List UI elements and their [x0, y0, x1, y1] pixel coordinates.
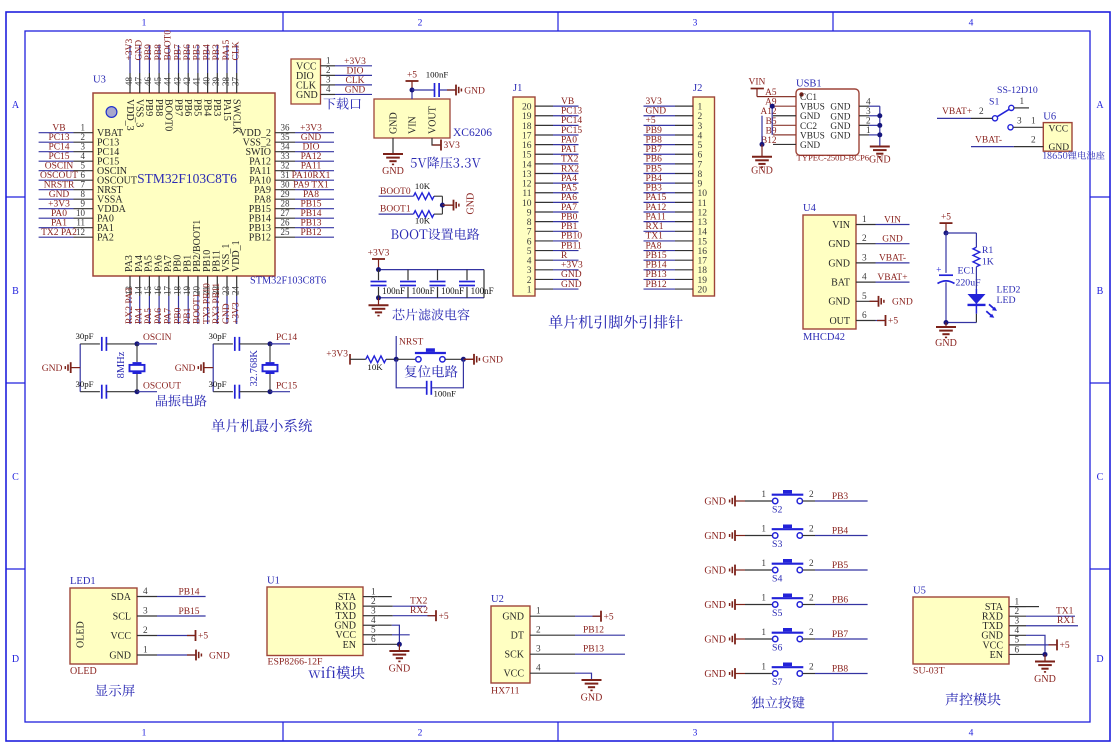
- svg-text:PA6: PA6: [561, 193, 577, 203]
- svg-text:GND: GND: [830, 112, 850, 122]
- svg-text:+3V3: +3V3: [232, 302, 242, 324]
- net label PB15: [300, 200, 321, 210]
- svg-text:OSCOUT: OSCOUT: [143, 382, 181, 392]
- svg-text:OSCIN: OSCIN: [143, 333, 172, 343]
- svg-text:GND: GND: [389, 112, 400, 134]
- svg-text:1: 1: [761, 594, 766, 604]
- net label PA1: [561, 145, 577, 155]
- svg-text:PB8: PB8: [646, 135, 663, 145]
- capacitor 30pF bottom: [208, 379, 239, 399]
- net label PB4: [646, 174, 663, 184]
- U5 pin 4 GND: [981, 626, 1026, 642]
- svg-text:S1: S1: [989, 96, 999, 107]
- J2 pin 19 wire: [644, 276, 708, 286]
- crystal 8MHz: [116, 344, 145, 392]
- J2 pin 6 wire: [644, 151, 703, 161]
- J1 pin 13 wire: [522, 170, 579, 180]
- capacitor 100nF filter 4: [459, 270, 494, 298]
- svg-text:PB6: PB6: [832, 596, 849, 606]
- net label NRSTR: [44, 181, 75, 191]
- ground LED circuit: [935, 323, 957, 350]
- net label PA4: [135, 308, 145, 324]
- net label TX1: [646, 232, 664, 242]
- net label PA5: [144, 308, 154, 324]
- net label PB12: [583, 626, 604, 636]
- caption MCU minimum system: [211, 419, 312, 432]
- net label PB10: [561, 232, 582, 242]
- svg-text:LED1: LED1: [70, 576, 96, 587]
- svg-text:1: 1: [371, 587, 376, 597]
- svg-text:3: 3: [693, 729, 698, 739]
- svg-text:PB8: PB8: [832, 665, 849, 675]
- download port pin 4 GND wire: [296, 84, 372, 101]
- svg-text:28: 28: [281, 198, 291, 208]
- svg-text:PB4: PB4: [832, 527, 849, 537]
- svg-text:220uF: 220uF: [956, 278, 982, 289]
- svg-text:3: 3: [862, 253, 867, 263]
- svg-text:S4: S4: [772, 573, 782, 584]
- svg-text:PC15: PC15: [276, 382, 297, 392]
- svg-text:100nF: 100nF: [426, 70, 449, 80]
- svg-text:3: 3: [81, 141, 86, 151]
- J1 pin 19 wire: [522, 112, 579, 122]
- battery holder U6 body: [1043, 112, 1072, 153]
- wire VBAT+ to S1 pin2: [971, 107, 992, 119]
- svg-text:PB13: PB13: [583, 645, 604, 655]
- svg-text:12: 12: [698, 208, 708, 218]
- svg-text:42: 42: [182, 77, 192, 86]
- svg-text:SS-12D10: SS-12D10: [997, 85, 1038, 96]
- U3 pin 8 VSSA wire: [39, 189, 124, 206]
- svg-text:37: 37: [231, 77, 241, 87]
- svg-text:GND: GND: [704, 669, 726, 680]
- svg-text:GND: GND: [382, 166, 404, 177]
- ground U5: [1034, 654, 1056, 685]
- U3 pin 22 PB11 wire: [211, 250, 222, 324]
- svg-text:2: 2: [527, 276, 532, 286]
- J1 pin 4 wire: [527, 257, 579, 267]
- svg-text:PA5: PA5: [561, 184, 577, 194]
- module U1 ESP8266-12F body: [267, 576, 363, 668]
- U3 pin 12 PA2 wire: [39, 227, 114, 244]
- svg-text:32.768K: 32.768K: [249, 350, 260, 387]
- svg-text:1K: 1K: [982, 257, 994, 268]
- svg-text:3: 3: [693, 19, 698, 29]
- svg-text:5: 5: [527, 247, 532, 257]
- svg-text:12: 12: [76, 227, 85, 237]
- svg-text:VDD_3: VDD_3: [124, 99, 135, 131]
- svg-text:GND: GND: [464, 85, 485, 96]
- caption BOOT config circuit: [391, 228, 479, 240]
- svg-text:2: 2: [1031, 136, 1036, 146]
- wire GND tie A12-B12: [760, 116, 765, 147]
- net label +3V3: [344, 57, 366, 67]
- wire OSCOUT node: [239, 389, 290, 394]
- svg-text:2: 2: [866, 117, 871, 127]
- wire gnd to S6: [745, 628, 773, 639]
- svg-text:HX711: HX711: [491, 686, 520, 697]
- svg-text:TX1: TX1: [646, 232, 664, 242]
- ground reset: [465, 354, 503, 366]
- svg-text:PB3: PB3: [646, 184, 663, 194]
- svg-text:U5: U5: [913, 586, 926, 597]
- svg-text:A: A: [12, 100, 20, 111]
- net label PC14: [276, 333, 297, 343]
- svg-text:PB7: PB7: [172, 99, 183, 116]
- net label PB4: [202, 44, 212, 61]
- USB1 pin 4 GND wire: [830, 97, 879, 112]
- svg-text:PA8: PA8: [303, 190, 319, 200]
- wire BOOT junction: [440, 196, 454, 214]
- USB1 pin A5 CC1: [765, 88, 817, 103]
- USB1 pin 1 GND wire: [830, 126, 879, 141]
- svg-text:PB14: PB14: [646, 261, 667, 271]
- svg-text:44: 44: [163, 77, 173, 87]
- U1 pin 6 EN: [343, 635, 378, 651]
- svg-text:PB3: PB3: [832, 492, 849, 502]
- svg-text:2: 2: [809, 663, 814, 673]
- svg-text:PA1: PA1: [561, 145, 577, 155]
- module U2 HX711 body: [491, 594, 530, 697]
- switch S1 SS-12D10: [989, 85, 1038, 130]
- svg-text:3: 3: [1015, 617, 1020, 627]
- LED1 pin 2 VCC wire: [110, 626, 157, 642]
- wire button to gnd: [445, 357, 474, 362]
- U3 pin 2 PC13 wire: [39, 132, 120, 149]
- J2 pin 4 wire: [644, 131, 703, 141]
- svg-text:2: 2: [536, 626, 541, 636]
- net label PA1: [51, 219, 67, 229]
- net label VB: [561, 97, 574, 107]
- svg-text:6: 6: [862, 311, 867, 321]
- svg-text:14: 14: [134, 286, 144, 296]
- LED2 diode: [968, 285, 1021, 323]
- net label PB11: [561, 241, 582, 251]
- net label PC15: [276, 382, 297, 392]
- svg-text:PC13: PC13: [48, 133, 69, 143]
- svg-text:1: 1: [761, 628, 766, 638]
- svg-text:PA5: PA5: [144, 308, 154, 324]
- push button S3: [772, 525, 804, 539]
- svg-text:PB0: PB0: [561, 212, 578, 222]
- net label GND: [561, 280, 582, 290]
- U2 pin 3 SCK: [505, 645, 548, 661]
- svg-text:GND: GND: [646, 107, 667, 117]
- svg-text:5: 5: [698, 141, 703, 151]
- svg-text:15: 15: [698, 237, 708, 247]
- wire OSCOUT node: [106, 389, 157, 394]
- J1 pin 20 wire: [522, 103, 579, 113]
- svg-text:GND: GND: [704, 531, 726, 542]
- U3 pin 21 PB10 wire: [201, 250, 212, 324]
- J1 pin 11 wire: [522, 189, 578, 199]
- svg-text:1: 1: [761, 490, 766, 500]
- svg-text:RX1: RX1: [1057, 616, 1075, 626]
- svg-text:2: 2: [143, 626, 148, 636]
- net label +3V3: [125, 39, 135, 61]
- ground button S2: [704, 496, 745, 508]
- svg-text:B: B: [12, 286, 19, 297]
- svg-text:4: 4: [143, 587, 148, 597]
- svg-text:PB5: PB5: [832, 561, 849, 571]
- svg-text:25: 25: [281, 227, 291, 237]
- svg-text:1: 1: [761, 559, 766, 569]
- net label PA11: [301, 162, 322, 172]
- wire U1 EN junction: [378, 642, 402, 647]
- resistor 10K BOOT0: [414, 181, 443, 200]
- U4 pin 6 OUT wire: [829, 311, 875, 327]
- svg-text:PA0: PA0: [51, 209, 67, 219]
- svg-text:PB8: PB8: [154, 44, 164, 61]
- svg-text:S5: S5: [772, 608, 782, 619]
- net label PA0: [51, 209, 67, 219]
- U3 pin 35 VSS_2 wire: [243, 132, 334, 149]
- wire gnd to S5: [745, 594, 773, 605]
- svg-text:D: D: [1096, 654, 1103, 665]
- svg-text:VIN: VIN: [408, 116, 419, 134]
- svg-text:100nF: 100nF: [434, 389, 457, 399]
- USB1 pin B5 CC2: [766, 117, 818, 132]
- svg-text:GND: GND: [830, 103, 850, 113]
- svg-text:PB14: PB14: [300, 209, 321, 219]
- svg-text:LED: LED: [997, 295, 1016, 306]
- U3 pin 25 PB12 wire: [249, 227, 334, 244]
- svg-text:VBAT+: VBAT+: [942, 107, 972, 117]
- svg-text:PB5: PB5: [193, 44, 203, 61]
- wire U5 VCC to +5: [1026, 639, 1070, 651]
- U3 pin 33 PA12 wire: [249, 151, 334, 168]
- ground crystal: [42, 362, 80, 374]
- U3 pin 34 SWIO wire: [245, 141, 334, 158]
- net label RX1: [646, 222, 664, 232]
- U3 pin 4 PC15 wire: [39, 151, 120, 168]
- svg-text:PA15: PA15: [221, 99, 232, 121]
- svg-text:46: 46: [143, 77, 153, 87]
- svg-text:VB: VB: [561, 97, 574, 107]
- svg-text:U3: U3: [93, 75, 106, 86]
- U4 pin 4 BAT wire: [831, 273, 875, 289]
- capacitor 30pF top: [208, 331, 239, 351]
- svg-text:+5: +5: [198, 632, 208, 642]
- J1 pin 12 wire: [522, 180, 579, 190]
- svg-text:+5: +5: [604, 612, 614, 622]
- svg-text:GND: GND: [109, 650, 131, 661]
- svg-text:2: 2: [418, 19, 423, 29]
- net label GND: [646, 107, 667, 117]
- download port connector body: [291, 59, 321, 104]
- svg-text:3: 3: [326, 75, 331, 85]
- net label PA12: [646, 203, 667, 213]
- net label PB3: [212, 44, 222, 61]
- wire gnd to S3: [745, 525, 773, 536]
- svg-text:PC14: PC14: [276, 333, 297, 343]
- svg-text:10: 10: [522, 199, 532, 209]
- J1 pin 9 wire: [527, 208, 579, 218]
- net label PA15: [646, 193, 667, 203]
- svg-text:4: 4: [862, 273, 867, 283]
- wire crystal left vertical: [212, 344, 214, 392]
- svg-text:9: 9: [81, 198, 86, 208]
- net label PB5: [193, 44, 203, 61]
- net label PB3: [646, 184, 663, 194]
- J2 pin 2 wire: [644, 112, 703, 122]
- wire U2 VCC to gnd: [548, 673, 592, 680]
- svg-text:VIN: VIN: [884, 215, 901, 225]
- svg-text:VBAT+: VBAT+: [877, 273, 907, 283]
- U4 pin 5 GND wire: [828, 292, 875, 308]
- svg-text:10K: 10K: [367, 362, 383, 372]
- U3 pin 39 PB3 wire: [211, 45, 222, 116]
- svg-text:+5: +5: [407, 71, 417, 81]
- U2 pin 4 VCC: [503, 664, 548, 680]
- U3 pin 47 VSS_3 wire: [134, 45, 145, 127]
- net label VBAT+: [937, 107, 972, 118]
- net label PA6: [154, 308, 164, 324]
- svg-text:PB7: PB7: [646, 145, 663, 155]
- svg-text:GND: GND: [1034, 674, 1056, 685]
- net label PA9 TX1: [293, 181, 329, 191]
- net label PB15: [646, 251, 667, 261]
- U3 pin 10 PA0 wire: [39, 208, 114, 225]
- net label BOOT1: [379, 204, 414, 214]
- svg-text:BOOT0: BOOT0: [164, 30, 174, 61]
- svg-text:6: 6: [81, 170, 86, 180]
- svg-text:PB13: PB13: [646, 270, 667, 280]
- svg-text:4: 4: [81, 151, 86, 161]
- net label VBAT-: [876, 254, 910, 264]
- wire S2 to PB3: [803, 490, 868, 501]
- USB1 pin A9 VBUS: [765, 98, 825, 113]
- XC6206 GND pin to ground: [383, 138, 403, 164]
- svg-text:1: 1: [142, 19, 147, 29]
- svg-text:PA9 TX1: PA9 TX1: [293, 181, 329, 191]
- net label PB8: [154, 44, 164, 61]
- power +5 U1: [428, 610, 449, 622]
- svg-text:100nF: 100nF: [471, 286, 494, 296]
- svg-text:CLK: CLK: [346, 76, 365, 86]
- svg-text:16: 16: [153, 286, 163, 296]
- svg-text:USB1: USB1: [796, 79, 822, 90]
- svg-text:9: 9: [698, 180, 703, 190]
- J2 pin 10 wire: [644, 189, 708, 199]
- push button S2: [772, 490, 804, 504]
- ground crystal: [175, 362, 213, 374]
- svg-text:+3V3: +3V3: [300, 124, 322, 134]
- svg-text:+3V3: +3V3: [561, 261, 583, 271]
- svg-text:VB: VB: [52, 124, 65, 134]
- net label DIO: [303, 143, 320, 153]
- svg-text:DIO: DIO: [303, 143, 320, 153]
- net label PB4: [832, 527, 849, 537]
- svg-text:2: 2: [809, 525, 814, 535]
- svg-text:GND: GND: [466, 193, 477, 215]
- U1 pin 5 VCC: [335, 626, 377, 642]
- svg-text:6: 6: [371, 635, 376, 645]
- U3 pin 48 VDD_3 wire: [124, 45, 135, 131]
- svg-text:48: 48: [124, 77, 134, 87]
- svg-text:PA2: PA2: [97, 233, 114, 244]
- svg-text:PA11: PA11: [646, 212, 667, 222]
- svg-text:VBUS: VBUS: [800, 103, 825, 113]
- resistor R1 1K: [973, 233, 994, 289]
- svg-text:VCC: VCC: [1049, 124, 1069, 134]
- svg-text:2: 2: [698, 112, 703, 122]
- svg-text:PA1: PA1: [51, 219, 67, 229]
- wire U2 DT to PB12: [548, 634, 625, 636]
- U1 pin 3 TXD: [335, 607, 377, 623]
- svg-text:27: 27: [281, 208, 291, 218]
- power VIN: [749, 78, 774, 97]
- U3 pin 11 PA1 wire: [39, 217, 114, 234]
- svg-text:CC2: CC2: [800, 122, 817, 132]
- svg-text:GND: GND: [704, 496, 726, 507]
- svg-text:38: 38: [221, 77, 231, 87]
- svg-text:GND: GND: [935, 338, 957, 349]
- USB1 TYPEC-250D-BCP6 body: [796, 79, 870, 163]
- net label PB15: [157, 607, 206, 617]
- svg-text:+5: +5: [1060, 641, 1070, 651]
- net label PB14: [300, 209, 321, 219]
- svg-text:GND: GND: [869, 155, 891, 166]
- svg-text:10K: 10K: [415, 181, 431, 191]
- svg-text:47: 47: [134, 77, 144, 87]
- net label PB12: [646, 280, 667, 290]
- J1 pin 6 wire: [527, 237, 579, 247]
- svg-text:PB12: PB12: [583, 626, 604, 636]
- svg-text:1: 1: [81, 122, 86, 132]
- net label GND: [301, 133, 322, 143]
- U3 pin 5 OSCIN wire: [39, 160, 127, 177]
- svg-text:PB5: PB5: [192, 99, 203, 116]
- push button S6: [772, 628, 804, 642]
- svg-text:30pF: 30pF: [208, 379, 226, 389]
- svg-text:PB8: PB8: [153, 99, 164, 116]
- U3 pin 28 PB15 wire: [249, 198, 334, 215]
- U3 pin 20 PB2/BOOT1 wire: [192, 220, 203, 324]
- svg-text:OSCIN: OSCIN: [45, 162, 74, 172]
- capacitor 30pF top: [75, 331, 106, 351]
- svg-text:PB1: PB1: [561, 222, 578, 232]
- svg-text:3: 3: [536, 645, 541, 655]
- svg-text:29: 29: [281, 189, 291, 199]
- svg-text:GND: GND: [830, 122, 850, 132]
- wire S4 to PB5: [803, 559, 868, 570]
- svg-text:GND: GND: [828, 297, 850, 308]
- U3 pin 43 PB7 wire: [172, 45, 183, 116]
- U5 pin 2 RXD: [982, 607, 1026, 623]
- svg-text:DIO: DIO: [347, 66, 364, 76]
- svg-text:1: 1: [326, 56, 331, 66]
- wire U2 pin1 to +5: [548, 611, 614, 623]
- wire U2 SCK to PB13: [548, 653, 625, 655]
- net label R: [561, 251, 568, 261]
- net label TX2 PA2: [41, 228, 77, 238]
- svg-text:4: 4: [527, 257, 532, 267]
- wire filter cap rails: [376, 267, 484, 300]
- svg-text:R1: R1: [982, 245, 994, 256]
- net label OSCOUT: [143, 382, 181, 392]
- caption xiazaikou: [324, 98, 361, 110]
- net label PB7: [646, 145, 663, 155]
- LED1 pin 1 GND wire: [109, 646, 157, 662]
- U3 pin 17 PA7 wire: [163, 255, 174, 324]
- svg-text:40: 40: [201, 77, 211, 87]
- svg-text:34: 34: [281, 141, 291, 151]
- svg-text:PB10: PB10: [561, 232, 582, 242]
- svg-text:U6: U6: [1043, 112, 1056, 123]
- svg-text:1: 1: [862, 215, 867, 225]
- svg-text:4: 4: [698, 131, 703, 141]
